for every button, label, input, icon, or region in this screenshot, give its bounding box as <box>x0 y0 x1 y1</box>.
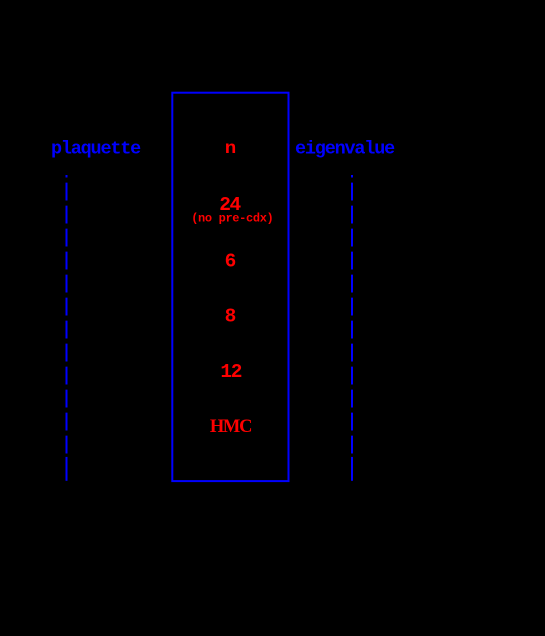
svg-text:plaquette: plaquette <box>51 139 141 160</box>
right dashed line (eigenvalue) <box>351 175 353 454</box>
svg-text:12: 12 <box>220 361 241 383</box>
svg-text:HMC: HMC <box>210 417 251 437</box>
svg-text:(no pre-cdx): (no pre-cdx) <box>191 212 273 226</box>
svg-text:n: n <box>225 139 237 159</box>
right dashed line final dash <box>351 457 353 481</box>
left dashed line (plaquette) <box>66 175 68 454</box>
left dashed line final dash <box>66 457 68 481</box>
svg-text:8: 8 <box>225 306 237 328</box>
svg-text:6: 6 <box>225 250 237 272</box>
svg-text:eigenvalue: eigenvalue <box>295 139 395 160</box>
legend box <box>172 93 288 481</box>
